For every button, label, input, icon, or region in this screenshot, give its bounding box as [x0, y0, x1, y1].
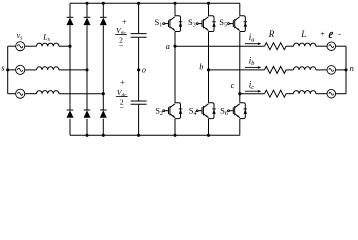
wire row3 right: [59, 93, 103, 95]
diode D6 (bottom leg2): [84, 110, 91, 118]
diode D4 (bottom leg1): [67, 110, 74, 118]
bottom DC bus: [70, 134, 240, 136]
svg-text:Ls: Ls: [42, 33, 50, 44]
svg-text:S2: S2: [155, 105, 163, 117]
svg-text:S5: S5: [219, 17, 227, 29]
svg-text:n: n: [350, 63, 354, 73]
junction dot leg2 top bus: [207, 2, 210, 5]
wire row c: [316, 93, 327, 95]
wire row3 mid: [25, 93, 37, 95]
svg-text:o: o: [142, 66, 146, 75]
back-EMF source eb: [327, 66, 336, 75]
node o dot: [137, 68, 140, 71]
svg-text:S1: S1: [155, 17, 163, 29]
wire row c right: [336, 93, 346, 95]
junction dot row2/leg2: [85, 68, 88, 71]
resistor R (row c): [265, 90, 287, 97]
node s bus (left vertical): [7, 46, 9, 93]
inductor phase 2: [37, 67, 59, 70]
svg-text:e: e: [328, 27, 334, 42]
resistor R (row a): [265, 43, 287, 50]
wire row3 left: [8, 93, 16, 95]
junction dot leg2 top bus: [85, 2, 88, 5]
row c wire: [240, 93, 265, 95]
row b wire: [209, 69, 265, 71]
inductor phase 3: [37, 91, 59, 94]
wire row2 mid: [25, 69, 37, 71]
inverter leg 2 wire: [208, 3, 210, 135]
wire row a: [286, 45, 293, 47]
junction dot leg1 top bus: [173, 2, 176, 5]
svg-text:ib: ib: [249, 56, 255, 68]
junction dot leg2 bottom bus: [85, 134, 88, 137]
svg-text:S6: S6: [220, 105, 228, 117]
junction dot leg3 top bus: [102, 2, 105, 5]
capacitor Cdc2 (bottom) plates: [131, 101, 147, 104]
wire row c: [286, 93, 293, 95]
current arrow ib: [245, 66, 261, 69]
wire row1 left: [8, 45, 16, 47]
svg-text:ic: ic: [249, 79, 255, 91]
diode D1 (top leg1): [67, 17, 74, 25]
inductor L (row c): [294, 91, 316, 94]
svg-text:S4: S4: [189, 105, 197, 117]
inductor Ls phase 1: [37, 43, 59, 46]
node s junction dot: [6, 68, 9, 71]
junction dot DC rail bottom: [137, 134, 140, 137]
rectifier leg 2 wire: [86, 3, 88, 135]
svg-text:b: b: [199, 61, 203, 71]
row a wire: [175, 45, 265, 47]
svg-text:R: R: [268, 29, 275, 39]
top DC bus: [70, 2, 240, 4]
junction dot row1/leg1: [68, 45, 71, 48]
inverter leg 3 wire: [239, 3, 241, 135]
junction dot leg2 bottom bus: [207, 134, 210, 137]
wire row b: [286, 69, 293, 71]
junction dot leg1 bottom bus: [173, 134, 176, 137]
wire row b right: [336, 69, 346, 71]
switch S6 (IGBT): [228, 103, 248, 119]
junction dot DC rail top: [137, 2, 140, 5]
DC link rail wire: [138, 3, 140, 135]
svg-text:-: -: [338, 30, 341, 39]
rectifier leg 1 wire: [69, 3, 71, 135]
svg-text:−: −: [119, 41, 124, 50]
resistor R (row b): [265, 66, 287, 73]
AC source vs phase 1: [16, 42, 25, 51]
svg-text:−: −: [120, 103, 125, 112]
svg-text:vs: vs: [17, 31, 24, 42]
wire row a right: [336, 45, 346, 47]
current arrow ia: [245, 42, 261, 45]
switch S2 (IGBT): [163, 103, 183, 119]
switch S5 (IGBT): [228, 16, 248, 32]
inductor L (row a): [294, 43, 316, 46]
diode D2 (bottom leg3): [100, 110, 107, 118]
neutral bus right vertical: [345, 46, 347, 93]
AC source phase 3: [16, 89, 25, 98]
diode D5 (top leg3): [100, 17, 107, 25]
AC source phase 2: [16, 65, 25, 74]
rectifier leg 3 wire: [102, 3, 104, 135]
wire row2 right: [59, 69, 87, 71]
inverter leg 1 wire: [174, 3, 176, 135]
wire row1 right: [59, 45, 70, 47]
svg-text:+: +: [122, 18, 127, 27]
node n dot: [344, 68, 347, 71]
svg-text:S3: S3: [188, 17, 196, 29]
svg-text:L: L: [300, 29, 306, 39]
wire row a: [316, 45, 327, 47]
junction dot row3/leg3: [102, 92, 105, 95]
wire row b: [316, 69, 327, 71]
junction dot leg3 bottom bus: [102, 134, 105, 137]
svg-text:+: +: [120, 78, 125, 87]
svg-text:c: c: [231, 80, 235, 90]
back-EMF source ea: [327, 42, 336, 51]
wire row2 left: [8, 69, 16, 71]
svg-text:+: +: [320, 30, 325, 39]
svg-text:a: a: [166, 41, 170, 51]
node c dot: [238, 92, 241, 95]
node b dot: [207, 68, 210, 71]
switch S4 (IGBT): [196, 103, 216, 119]
inductor L (row b): [294, 67, 316, 70]
svg-text:s: s: [1, 63, 5, 73]
svg-text:ia: ia: [249, 32, 255, 44]
switch S1 (IGBT): [163, 16, 183, 32]
current arrow ic: [245, 90, 261, 93]
capacitor Cdc1 (top) plates: [131, 34, 147, 38]
diode D3 (top leg2): [84, 17, 91, 25]
switch S3 (IGBT): [196, 16, 216, 32]
back-EMF source ec: [327, 89, 336, 98]
node a dot: [173, 45, 176, 48]
wire row1 mid: [25, 45, 37, 47]
